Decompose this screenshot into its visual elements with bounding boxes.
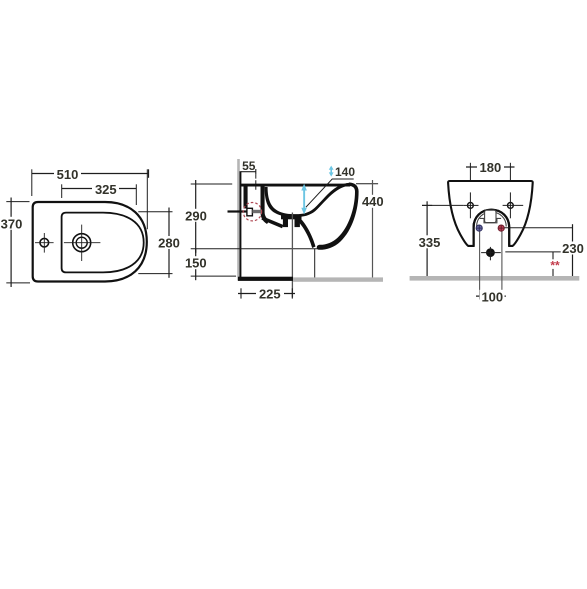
drain arch inner line <box>477 212 507 227</box>
dim 370 label <box>0 217 23 230</box>
dim 180 line <box>466 166 515 168</box>
dim 325 extension line right <box>135 184 137 205</box>
140 label with cyan icon <box>329 166 334 177</box>
dim 510 line <box>32 173 149 175</box>
wall (grey) <box>237 159 240 281</box>
dim 150 extension bottom <box>191 275 236 277</box>
svg-text:280: 280 <box>158 236 180 251</box>
flush recess rectangle <box>485 210 496 222</box>
dim 325 line <box>62 188 137 190</box>
middle view (side section of wall-hung bidet) <box>184 159 385 301</box>
threaded rod section <box>252 210 262 213</box>
svg-text:100: 100 <box>481 290 503 305</box>
dim 370 extension lines <box>6 201 29 203</box>
dim 150 line <box>195 249 197 280</box>
left fixing hole <box>468 203 474 209</box>
svg-text:440: 440 <box>362 194 384 209</box>
svg-text:335: 335 <box>419 235 441 250</box>
dim 230 label <box>561 242 585 255</box>
floor line (grey) right view <box>410 276 580 281</box>
dim 335 line <box>426 201 428 278</box>
drain hole <box>73 234 91 252</box>
drain level line to ** <box>505 251 560 253</box>
dim 180 extension lines <box>469 163 471 193</box>
dim 100 line <box>476 295 506 297</box>
svg-text:55: 55 <box>242 159 256 173</box>
svg-text:140: 140 <box>335 165 355 179</box>
floor line (grey) middle view <box>293 277 383 281</box>
dim 230 line <box>572 224 574 278</box>
water inlet dot right (red) <box>498 225 504 231</box>
left view (top view of bidet) <box>0 167 181 288</box>
bowl underside left diagonal <box>261 217 283 229</box>
dim 510 label <box>54 167 81 180</box>
front drop extension <box>314 249 316 279</box>
right view (rear view of bidet) <box>410 160 585 305</box>
dim 290/150 extension middle <box>191 248 318 250</box>
dim 225 label <box>256 287 284 300</box>
dim 290 extension top <box>191 183 233 185</box>
dim 280 extension lines <box>138 211 172 213</box>
drain fitting underside right diagonal <box>296 217 316 249</box>
dim 225 line <box>238 293 295 295</box>
bidet foot bottom bar <box>238 277 293 281</box>
fixing detail red dashed circle <box>243 203 261 221</box>
bidet inner rim (top view) <box>62 213 144 273</box>
svg-text:180: 180 <box>480 160 502 175</box>
drain circle (black) <box>486 248 495 257</box>
dim 290 label <box>184 209 208 222</box>
drain centreline <box>291 213 293 298</box>
140 leader line <box>306 179 354 207</box>
dim 440 label <box>360 195 385 208</box>
svg-text:325: 325 <box>95 182 117 197</box>
drain fitting left flange <box>283 216 288 227</box>
dim 290 line <box>195 180 197 253</box>
dim 150 label <box>184 256 208 269</box>
dim 100 label <box>480 290 505 303</box>
dim 280 line <box>168 208 170 278</box>
tap hole <box>40 238 49 247</box>
bowl interior curve <box>265 183 350 217</box>
svg-text:150: 150 <box>185 256 207 271</box>
right fixing hole <box>508 203 514 209</box>
dim 180 label <box>477 160 504 173</box>
dim 335 extension <box>422 204 463 206</box>
dim 440 extension top <box>356 183 378 185</box>
dim 325 extension line left <box>61 184 63 198</box>
fixing centreline <box>255 175 257 191</box>
threaded rod through wall <box>228 210 248 212</box>
drain fitting right flange <box>295 216 300 227</box>
dim 280 label <box>157 236 181 249</box>
svg-text:**: ** <box>550 259 560 273</box>
bidet outer rim (top view) <box>33 202 147 282</box>
dim 55 line <box>241 171 256 173</box>
inlet extension lines down <box>479 232 481 300</box>
drain arch (thick) <box>474 210 510 246</box>
wall face line <box>240 171 242 278</box>
dim 325 label <box>92 182 119 195</box>
fixing channel left wall <box>244 187 248 209</box>
svg-text:290: 290 <box>185 208 207 223</box>
svg-text:230: 230 <box>562 241 584 256</box>
drain fitting top bar <box>281 215 302 220</box>
inner rim wall band <box>261 187 270 225</box>
cyan depth arrow <box>301 184 307 215</box>
recess shoulders <box>480 218 502 222</box>
svg-text:510: 510 <box>57 167 79 182</box>
svg-text:370: 370 <box>1 216 23 231</box>
nose / front outer curve <box>317 183 359 250</box>
red dot level line to 230 <box>505 227 573 229</box>
dim 440 line <box>372 180 374 280</box>
dim 510 extension line right <box>146 169 148 229</box>
dim 370 line <box>10 198 12 288</box>
fixing nut <box>247 208 253 216</box>
dim 225 ticks <box>240 288 242 298</box>
dim 510 extension line left <box>31 169 33 196</box>
water inlet dot left (blue) <box>476 225 482 231</box>
bidet rim top bar <box>241 183 350 187</box>
svg-text:225: 225 <box>259 286 281 301</box>
bidet rear outline <box>448 181 533 246</box>
dim 335 label <box>416 235 442 248</box>
